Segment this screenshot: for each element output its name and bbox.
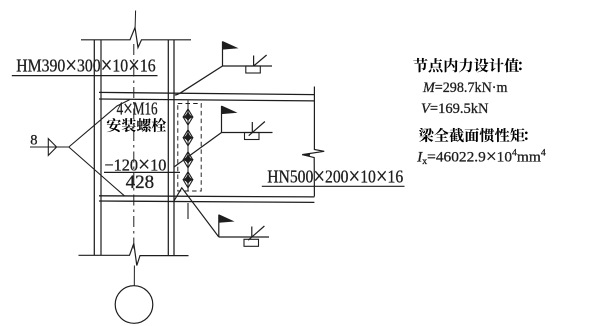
fillet weld symbol [253,56,255,67]
fillet weld symbol [251,227,253,238]
column centerline [133,44,135,252]
svg-text:8: 8 [30,133,37,149]
svg-text:428: 428 [126,172,155,193]
column right flange inner line [167,40,169,256]
centerline stub below bottom break [133,266,135,286]
leader branch to top stiffener weld [69,100,130,147]
beam top flange upper line / column stiffener [99,92,314,94]
bolt B3 [183,152,193,168]
leader line from 8 [30,146,69,148]
column right flange outer line [173,40,175,256]
beam end break line [302,87,324,197]
centerline stub above top break [134,11,137,28]
bolt B4 [183,172,193,188]
column top break line [81,28,191,48]
column bottom break line [79,244,189,266]
weld symbol W3 leader [174,188,219,237]
break line ink blob [302,153,311,157]
svg-text:V=169.5kN: V=169.5kN [421,101,489,117]
shear plate dashed outline [178,104,201,192]
bolt B2 [183,130,193,146]
column mark circle [115,286,153,324]
weld reference line [222,132,273,134]
weld symbol W2 leader [174,133,222,168]
column left flange inner line [100,40,102,256]
bolt label (Chinese) an zhuang luo shuan [107,118,121,132]
underline for HN label [262,185,405,187]
note heading: design internal forces [413,58,427,72]
fraction bar [104,171,180,173]
beam bottom flange lower line [99,201,314,202]
weld tail box [244,239,259,246]
leader branch to bottom stiffener weld [69,147,125,196]
svg-text:M=298.7kN·m: M=298.7kN·m [422,80,508,96]
weld flag (field weld) [218,215,220,237]
weld reference line [223,65,273,67]
weld tail box [245,133,260,140]
bolt gauge line [187,100,189,190]
bolt B1 [183,109,193,125]
weld tail box [246,66,260,73]
svg-text:4×M16: 4×M16 [117,95,158,121]
column left flange outer line [93,40,95,256]
beam bottom flange upper line / column stiffener [99,196,314,197]
weld flag (field weld) [222,42,224,67]
underline for HM label [12,75,158,77]
plate edge stub below beam bottom flange [187,203,189,219]
weld symbol W1 leader [175,66,223,95]
open arrowhead [48,139,56,156]
fillet weld symbol [251,122,253,133]
weld reference line [219,236,269,238]
beam top flange lower line [99,99,314,101]
note heading: beam section moment of inertia [419,128,434,142]
weld flag (field weld) [221,106,223,133]
svg-text:Ix=46022.9×104mm4: Ix=46022.9×104mm4 [416,147,546,168]
